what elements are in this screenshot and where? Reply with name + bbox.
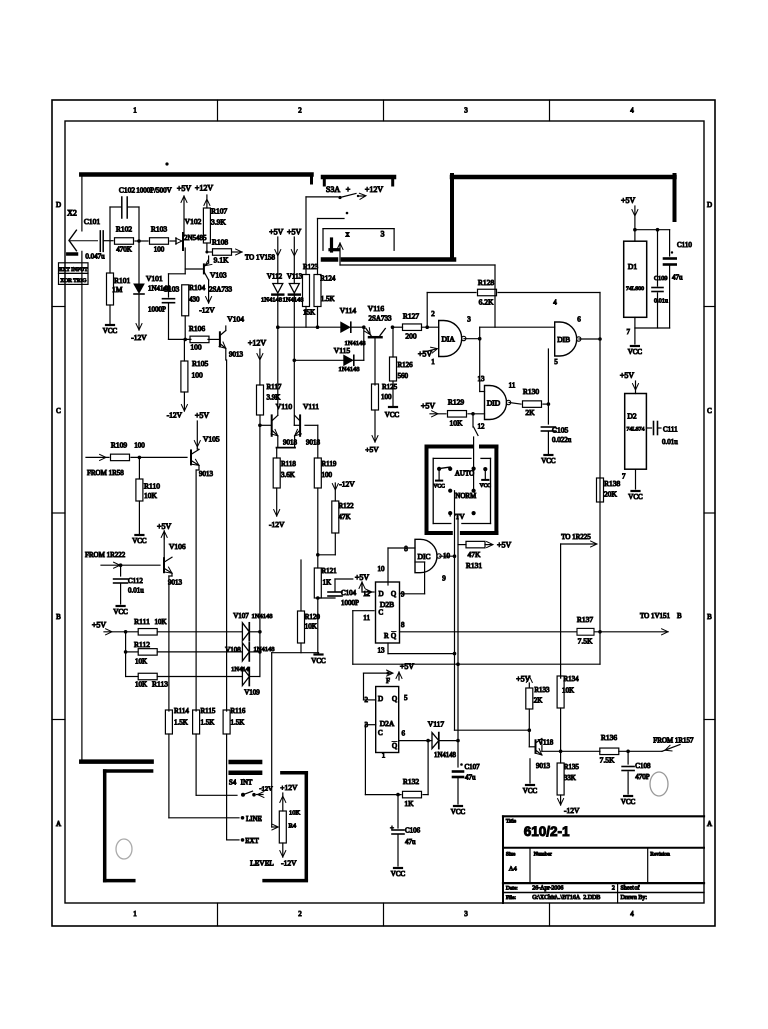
svg-text:200: 200 [405, 332, 417, 341]
svg-text:C109: C109 [654, 275, 667, 282]
svg-text:+5V: +5V [621, 196, 636, 205]
svg-text:D1: D1 [628, 262, 637, 271]
svg-text:V118: V118 [538, 739, 554, 747]
svg-text:DIC: DIC [418, 552, 431, 561]
svg-text:15K: 15K [303, 309, 315, 317]
svg-text:47u: 47u [405, 838, 416, 846]
svg-text:R136: R136 [601, 733, 618, 742]
svg-text:Drawn By:: Drawn By: [621, 895, 648, 901]
svg-text:10K: 10K [305, 623, 317, 631]
svg-text:R135: R135 [564, 763, 580, 771]
svg-text:+12V: +12V [195, 184, 214, 193]
svg-text:C101: C101 [84, 217, 101, 226]
svg-text:VCC: VCC [628, 493, 643, 501]
svg-text:R106: R106 [189, 324, 206, 333]
svg-text:X2: X2 [67, 209, 77, 218]
svg-text:R112: R112 [134, 640, 150, 649]
svg-text:B: B [56, 613, 61, 621]
svg-text:6.2K: 6.2K [479, 298, 494, 307]
svg-text:AUTO: AUTO [455, 470, 474, 478]
svg-text:V104: V104 [227, 315, 244, 324]
svg-text:D: D [56, 201, 61, 209]
svg-text:+12V: +12V [248, 339, 267, 348]
svg-text:File:: File: [506, 895, 517, 901]
svg-text:1.5K: 1.5K [201, 719, 215, 727]
svg-text:3: 3 [381, 230, 385, 239]
svg-text:C105: C105 [552, 426, 569, 435]
svg-text:5: 5 [404, 694, 408, 702]
svg-text:3: 3 [464, 910, 468, 918]
svg-text:7: 7 [622, 473, 626, 481]
svg-text:1: 1 [133, 107, 137, 115]
svg-text:4: 4 [630, 910, 634, 918]
svg-text:33K: 33K [564, 774, 576, 782]
svg-text:C: C [56, 407, 61, 415]
svg-text:7.5K: 7.5K [600, 756, 615, 765]
svg-text:G:\XChiu\..\BT16A 2.DDB: G:\XChiu\..\BT16A 2.DDB [532, 895, 600, 901]
svg-text:100: 100 [192, 371, 204, 380]
svg-text:+12V: +12V [280, 783, 298, 792]
svg-text:EXT INPUT: EXT INPUT [59, 267, 88, 273]
svg-text:C111: C111 [663, 426, 678, 434]
svg-text:1000P: 1000P [341, 599, 359, 607]
svg-text:A: A [56, 820, 61, 828]
svg-text:R120: R120 [305, 613, 321, 621]
svg-text:+12V: +12V [365, 185, 384, 194]
svg-text:R128: R128 [478, 278, 495, 287]
svg-text:47u: 47u [672, 274, 683, 282]
svg-text:LINE: LINE [246, 815, 262, 823]
svg-text:S3A: S3A [326, 185, 340, 194]
svg-text:1N4148: 1N4148 [261, 297, 282, 304]
svg-text:C110: C110 [677, 241, 692, 249]
svg-text:R114: R114 [174, 707, 189, 715]
svg-text:3.6K: 3.6K [281, 471, 295, 479]
svg-text:TO 1V158: TO 1V158 [245, 254, 276, 262]
svg-text:FROM 1R222: FROM 1R222 [85, 551, 126, 559]
svg-text:R117: R117 [267, 383, 282, 391]
svg-text:XOR TRIG: XOR TRIG [60, 278, 86, 284]
svg-text:Q: Q [392, 742, 397, 750]
svg-text:+5V: +5V [177, 184, 192, 193]
svg-text:2K: 2K [525, 408, 535, 417]
svg-text:S4: S4 [229, 779, 237, 787]
svg-text:10: 10 [378, 565, 386, 573]
svg-text:R115: R115 [201, 707, 216, 715]
svg-text:Number: Number [534, 852, 552, 858]
svg-text:B: B [677, 612, 682, 620]
svg-text:R134: R134 [564, 675, 580, 683]
svg-text:x: x [346, 230, 350, 239]
svg-text:100: 100 [134, 442, 145, 450]
svg-text:FROM 1R157: FROM 1R157 [653, 737, 694, 745]
svg-text:V111: V111 [303, 402, 319, 411]
svg-text:8: 8 [401, 621, 405, 629]
svg-text:+5V: +5V [269, 228, 284, 237]
svg-text:470K: 470K [116, 246, 132, 254]
svg-text:V112: V112 [267, 273, 283, 281]
svg-text:R122: R122 [339, 502, 355, 510]
svg-text:LEVEL: LEVEL [250, 859, 274, 868]
svg-text:430: 430 [189, 296, 200, 304]
svg-text:6: 6 [402, 730, 406, 738]
svg-text:EXT: EXT [245, 837, 259, 845]
svg-text:Sheet: Sheet [621, 886, 635, 892]
svg-text:1000P: 1000P [148, 306, 166, 314]
svg-text:VCC: VCC [523, 787, 538, 795]
svg-text:26-Apr-2006: 26-Apr-2006 [532, 886, 563, 892]
svg-text:INT: INT [241, 779, 253, 787]
svg-text:R126: R126 [398, 361, 414, 369]
svg-text:+5V: +5V [421, 402, 436, 411]
svg-text:+5V: +5V [92, 621, 107, 630]
svg-text:1: 1 [431, 358, 435, 366]
svg-text:TV: TV [455, 513, 464, 521]
svg-text:1000P/500V: 1000P/500V [136, 187, 171, 195]
svg-text:VCC: VCC [621, 798, 636, 806]
svg-text:R103: R103 [151, 225, 168, 234]
svg-text:R109: R109 [111, 441, 128, 450]
svg-text:VCC: VCC [311, 657, 326, 665]
svg-text:D: D [379, 590, 384, 598]
svg-text:1N4148: 1N4148 [434, 752, 457, 759]
svg-text:+5V: +5V [355, 573, 370, 582]
svg-text:R133: R133 [534, 686, 550, 694]
svg-text:R124: R124 [320, 275, 336, 283]
svg-text:R131: R131 [466, 561, 483, 570]
svg-text:VCC: VCC [451, 808, 466, 816]
svg-text:F: F [386, 677, 390, 685]
svg-text:R111: R111 [134, 617, 150, 626]
svg-text:8: 8 [404, 545, 408, 553]
svg-text:1.5K: 1.5K [321, 295, 335, 303]
svg-text:R104: R104 [189, 283, 206, 292]
svg-text:FROM 1R58: FROM 1R58 [87, 469, 124, 477]
svg-text:R121: R121 [322, 567, 338, 575]
svg-text:-12V: -12V [269, 520, 285, 529]
svg-text:1N414: 1N414 [231, 666, 249, 673]
svg-text:VCC: VCC [391, 870, 406, 878]
svg-text:C112: C112 [128, 577, 143, 585]
svg-text:+5V: +5V [620, 371, 635, 380]
svg-text:C104: C104 [341, 589, 357, 597]
svg-text:1N4148: 1N4148 [252, 613, 273, 620]
svg-text:VCC: VCC [132, 537, 147, 545]
svg-text:V105: V105 [203, 435, 220, 444]
svg-text:1N4148: 1N4148 [283, 297, 304, 304]
svg-text:9013: 9013 [229, 351, 244, 359]
svg-text:2: 2 [298, 910, 302, 918]
svg-text:9: 9 [442, 575, 446, 583]
svg-text:+5V: +5V [516, 675, 531, 684]
svg-text:Q: Q [391, 632, 396, 640]
svg-text:V116: V116 [368, 304, 385, 313]
svg-text:C: C [379, 609, 384, 617]
svg-text:-12V: -12V [564, 806, 580, 815]
svg-text:C107: C107 [465, 763, 481, 771]
svg-text:DID: DID [487, 399, 501, 408]
svg-text:1K: 1K [323, 579, 332, 587]
svg-text:470P: 470P [635, 773, 650, 781]
svg-text:-12V: -12V [199, 306, 215, 315]
svg-text:9018: 9018 [283, 439, 298, 447]
svg-text:100: 100 [154, 246, 165, 254]
svg-text:10K: 10K [135, 658, 147, 666]
svg-text:R119: R119 [322, 460, 337, 468]
svg-text:9: 9 [401, 591, 405, 599]
svg-text:10K: 10K [289, 810, 301, 817]
svg-text:4: 4 [630, 107, 634, 115]
svg-text:100: 100 [322, 471, 333, 479]
svg-text:R129: R129 [448, 398, 465, 407]
svg-text:D2: D2 [627, 412, 636, 421]
svg-text:0.022u: 0.022u [552, 436, 572, 444]
svg-text:R105: R105 [192, 359, 209, 368]
svg-text:1.5K: 1.5K [174, 719, 188, 727]
svg-text:DIA: DIA [442, 335, 456, 344]
svg-text:C108: C108 [635, 762, 651, 770]
svg-text:+: + [346, 185, 351, 194]
svg-text:C103: C103 [163, 285, 180, 294]
svg-text:R137: R137 [577, 615, 594, 624]
svg-text:D: D [378, 695, 383, 703]
svg-text:Title: Title [506, 819, 517, 825]
svg-text:-12V: -12V [281, 859, 297, 868]
svg-text:VCC: VCC [113, 608, 128, 616]
svg-text:A4: A4 [509, 866, 518, 873]
svg-text:-12V: -12V [339, 480, 355, 489]
svg-text:1K: 1K [404, 799, 414, 808]
svg-text:R101: R101 [114, 276, 131, 285]
svg-text:V107: V107 [233, 612, 249, 620]
svg-text:C: C [378, 729, 383, 737]
svg-text:VCC: VCC [541, 457, 556, 465]
svg-text:1: 1 [133, 910, 137, 918]
svg-text:13: 13 [378, 647, 386, 655]
svg-text:0.01u: 0.01u [654, 298, 668, 305]
svg-text:10K: 10K [154, 618, 166, 626]
svg-text:V108: V108 [225, 646, 241, 654]
svg-text:+5V: +5V [497, 541, 512, 550]
svg-text:TO 1V151: TO 1V151 [640, 612, 671, 620]
svg-text:9013: 9013 [199, 470, 214, 478]
svg-text:R130: R130 [523, 387, 540, 396]
svg-text:11: 11 [363, 614, 370, 622]
svg-text:2: 2 [298, 107, 302, 115]
svg-text:1.5K: 1.5K [231, 719, 245, 727]
svg-text:-12V: -12V [259, 786, 273, 793]
svg-text:3.9K: 3.9K [211, 218, 226, 227]
svg-text:12: 12 [478, 423, 486, 431]
svg-text:3.9K: 3.9K [267, 394, 281, 402]
svg-text:20K: 20K [604, 490, 618, 499]
svg-text:R107: R107 [211, 207, 228, 216]
svg-text:R123: R123 [303, 263, 319, 271]
svg-text:6: 6 [577, 316, 581, 324]
svg-text:9013: 9013 [168, 579, 183, 587]
svg-text:R102: R102 [116, 225, 133, 234]
svg-text:R127: R127 [403, 312, 420, 321]
svg-text:3: 3 [467, 316, 471, 324]
svg-text:VCC: VCC [433, 484, 445, 490]
svg-text:Size: Size [506, 852, 516, 858]
svg-text:47K: 47K [468, 550, 482, 559]
svg-text:1M: 1M [112, 285, 123, 294]
svg-text:+5V: +5V [400, 662, 415, 671]
svg-text:2K: 2K [534, 697, 543, 705]
svg-text:V106: V106 [169, 542, 186, 551]
svg-text:Date:: Date: [506, 886, 518, 892]
svg-text:R132: R132 [403, 777, 420, 786]
svg-text:1N4148: 1N4148 [339, 366, 360, 373]
svg-text:NORM: NORM [455, 492, 477, 500]
svg-text:V103: V103 [210, 271, 227, 280]
svg-text:10K: 10K [450, 419, 464, 428]
svg-text:100: 100 [381, 393, 392, 401]
svg-text:Q: Q [391, 590, 396, 598]
svg-text:47K: 47K [339, 513, 351, 521]
svg-text:2: 2 [431, 310, 435, 318]
svg-text:V101: V101 [146, 274, 163, 283]
svg-text:V109: V109 [244, 689, 260, 697]
svg-text:+: + [390, 824, 394, 832]
svg-text:10K: 10K [144, 491, 158, 500]
svg-text:7: 7 [627, 328, 631, 336]
svg-text:VCC: VCC [385, 411, 400, 419]
svg-text:1: 1 [382, 752, 386, 760]
svg-text:R108: R108 [212, 238, 229, 247]
svg-text:B: B [707, 613, 712, 621]
svg-text:9.1K: 9.1K [214, 256, 229, 265]
svg-text:VCC: VCC [480, 483, 492, 489]
svg-text:of: of [635, 885, 640, 892]
svg-text:R138: R138 [604, 479, 621, 488]
svg-text:0.01u: 0.01u [128, 587, 144, 595]
svg-text:0.047u: 0.047u [85, 253, 105, 261]
svg-text:74LS74: 74LS74 [626, 427, 644, 433]
svg-text:V102: V102 [185, 217, 202, 226]
svg-text:+5V: +5V [365, 445, 379, 454]
svg-text:2SA733: 2SA733 [209, 286, 232, 294]
svg-text:D2A: D2A [380, 719, 395, 728]
svg-text:13: 13 [478, 375, 486, 383]
svg-text:5: 5 [554, 358, 558, 366]
svg-text:610/2-1: 610/2-1 [524, 824, 570, 839]
svg-text:2SA733: 2SA733 [369, 315, 392, 323]
svg-text:+5V: +5V [287, 228, 302, 237]
svg-text:C: C [707, 407, 712, 415]
svg-text:2: 2 [612, 886, 615, 892]
svg-text:R125: R125 [382, 383, 398, 391]
svg-text:C106: C106 [405, 827, 421, 835]
svg-text:Q: Q [392, 695, 397, 703]
svg-text:V115: V115 [334, 346, 351, 355]
svg-text:C102: C102 [119, 186, 136, 195]
svg-text:R110: R110 [144, 482, 160, 491]
svg-text:V113: V113 [287, 273, 303, 281]
svg-text:-12V: -12V [131, 333, 147, 342]
svg-text:7.5K: 7.5K [578, 637, 593, 646]
svg-text:9013: 9013 [536, 762, 551, 770]
svg-text:R4: R4 [289, 823, 297, 830]
svg-text:VCC: VCC [628, 348, 643, 356]
svg-text:TO 1R225: TO 1R225 [561, 533, 591, 541]
svg-text:D: D [707, 201, 712, 209]
svg-text:V117: V117 [428, 720, 445, 729]
svg-text:VCC: VCC [103, 327, 118, 335]
svg-text:R118: R118 [281, 460, 296, 468]
svg-text:DIB: DIB [557, 335, 570, 344]
svg-text:11: 11 [509, 382, 516, 390]
svg-text:10K: 10K [135, 681, 147, 689]
svg-text:V114: V114 [340, 306, 357, 315]
svg-text:R116: R116 [231, 707, 246, 715]
svg-text:Revision: Revision [650, 852, 670, 858]
svg-text:+5V: +5V [195, 411, 210, 420]
svg-text:-12V: -12V [167, 411, 183, 420]
svg-text:47u: 47u [465, 774, 476, 782]
svg-text:R: R [384, 632, 389, 640]
svg-text:560: 560 [398, 372, 409, 380]
svg-text:4: 4 [553, 299, 557, 307]
svg-text:0.01u: 0.01u [662, 438, 678, 446]
svg-text:74LS00: 74LS00 [626, 286, 644, 292]
svg-text:R113: R113 [152, 680, 168, 689]
svg-text:A: A [707, 820, 712, 828]
svg-text:+5V: +5V [157, 522, 172, 531]
svg-text:3: 3 [464, 107, 468, 115]
svg-text:100: 100 [190, 343, 202, 352]
